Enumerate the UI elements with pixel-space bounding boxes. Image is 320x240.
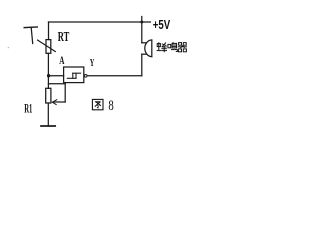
label +5V	[153, 18, 171, 32]
junction dot at +5V rail and buzzer tee	[140, 21, 143, 24]
buzzer BZ body	[145, 40, 152, 57]
faint scan speck	[8, 47, 9, 48]
wire left vertical from rail to RT	[48, 22, 50, 40]
wire node A to schmitt input	[48, 75, 63, 77]
thermistor RT diagonal stroke	[38, 40, 56, 51]
wire buzzer top stub	[142, 42, 147, 44]
wire U1 output Y to right	[87, 75, 142, 77]
wire RT bottom to node A to R1	[47, 53, 49, 88]
svg-text:RT: RT	[58, 30, 70, 45]
label RT	[58, 30, 70, 45]
wire top rail +5V	[49, 21, 151, 23]
wire right vertical output up to buzzer	[141, 54, 143, 76]
label R1	[24, 101, 32, 115]
svg-text:Y: Y	[90, 57, 95, 69]
schmitt hysteresis glyph	[67, 73, 80, 78]
potentiometer R1 wiper arrowhead	[52, 100, 57, 105]
temperature T mark of thermistor	[24, 27, 37, 44]
svg-text:8: 8	[108, 98, 113, 114]
label buzzer 蜂鸣器 (hand-drawn glyphs)	[157, 42, 187, 52]
glyph 蜂	[157, 42, 167, 52]
svg-text:A: A	[59, 53, 64, 67]
svg-text:+5V: +5V	[153, 18, 171, 32]
inverter bubble at U1 output	[84, 74, 87, 77]
resistor RT thermistor body	[46, 40, 51, 54]
svg-text:R1: R1	[24, 101, 32, 115]
label figure caption 图 (hand-drawn glyph)	[92, 99, 103, 109]
glyph 鸣	[168, 42, 178, 51]
ground bar	[41, 125, 55, 127]
op-amp U1 schmitt trigger box	[64, 67, 84, 83]
glyph 器	[178, 43, 187, 52]
label node Y	[90, 57, 95, 69]
label figure caption 8	[108, 98, 113, 114]
wire buzzer bottom stub	[142, 53, 147, 55]
resistor R1 body	[46, 88, 51, 103]
node A junction dot	[47, 74, 50, 77]
label node A	[59, 53, 64, 67]
wire rail down to buzzer	[141, 22, 143, 43]
wire R1 bottom to ground	[47, 103, 49, 126]
+5V terminal tick	[141, 17, 143, 23]
potentiometer R1 wiper loop wire	[48, 84, 65, 102]
